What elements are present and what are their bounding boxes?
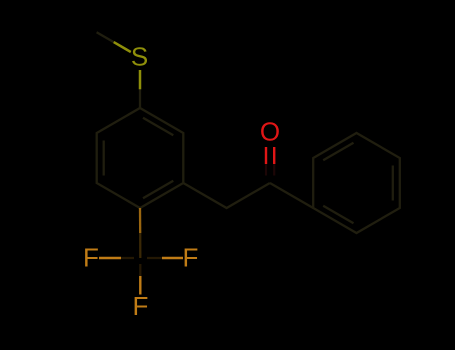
- S-CH3 bond, S half (olive): [114, 42, 131, 52]
- carbon halves of C-F bonds (dim): [120, 258, 162, 276]
- C-F bond halves (orange): [99, 257, 121, 259]
- S-ring bond, S half (olive): [139, 70, 142, 89]
- svg-text:O: O: [260, 117, 280, 147]
- carbon halves of C=O double bond (dim): [266, 164, 274, 176]
- bond carbonyl C to ipso: [270, 183, 313, 208]
- svg-text:S: S: [131, 42, 148, 72]
- left ring double bond inner lines: [103, 141, 105, 176]
- svg-text:F: F: [83, 243, 99, 273]
- bond ring V4 to CF3 carbon (faint orange): [139, 208, 141, 233]
- right phenyl ring (dim): [270, 133, 400, 233]
- left benzene ring (carbon skeleton, dim): [97, 108, 184, 208]
- chain: ring V3 to CH2 to carbonyl C (dim): [183, 183, 270, 208]
- svg-text:F: F: [183, 243, 199, 273]
- carbon half of S-ring bond (dim): [139, 89, 141, 108]
- carbon half of S-CH3 bond (dim): [97, 32, 114, 42]
- right ring double bond inner lines: [323, 143, 353, 161]
- svg-text:F: F: [133, 291, 149, 321]
- C=O double bond, O half (red): [266, 147, 274, 164]
